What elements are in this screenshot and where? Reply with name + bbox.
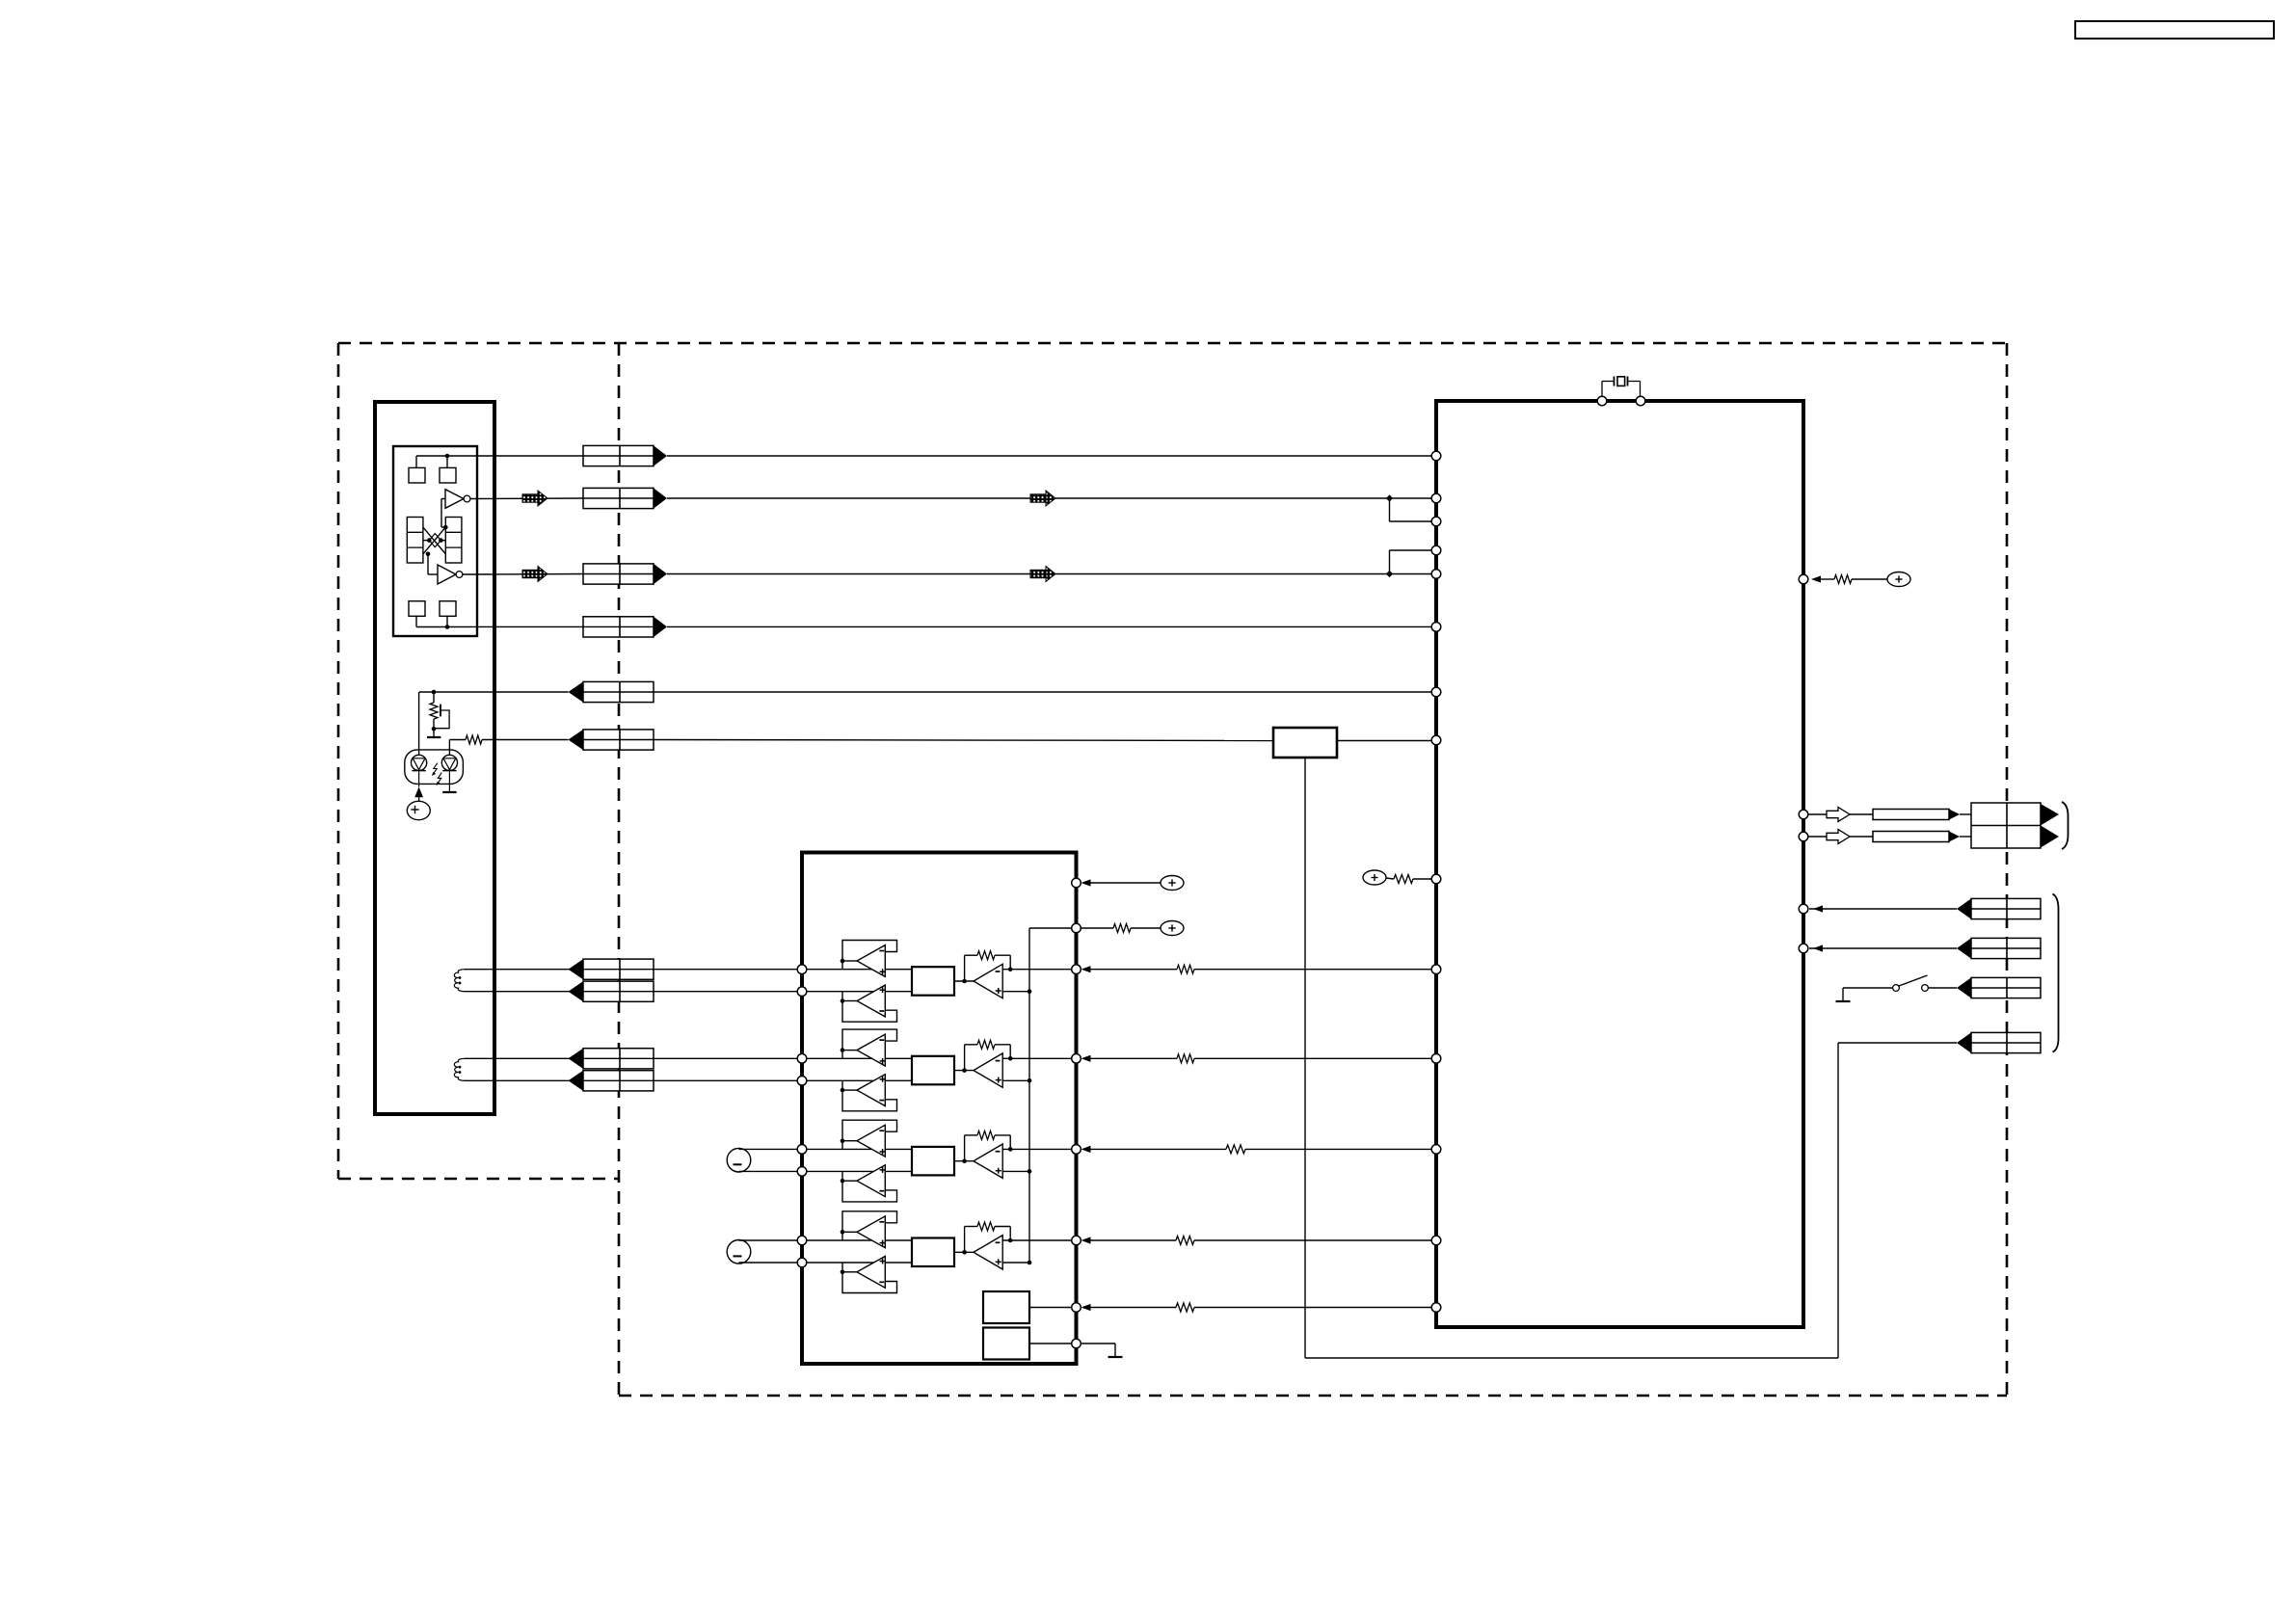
wire: LED D1 cathode to supply: [418, 797, 420, 801]
wire: DTMF tie jog: [1390, 498, 1432, 521]
op-amp U2d2 (lower driver): [857, 1256, 886, 1288]
wire: DET1 to pin: [1029, 1307, 1072, 1309]
photocoupler PC1 body: [405, 750, 464, 785]
connector CN2: [583, 488, 667, 508]
wire: ch2 lower input: [802, 1079, 912, 1081]
wire: ch2 upper feedback loop: [842, 1029, 897, 1051]
wire: ch1 lower input: [802, 991, 912, 993]
wire: ch4 lower feedback loop: [842, 1272, 897, 1293]
wire: A1 sense to CN15: [1305, 1043, 1957, 1358]
resistor R-RXA1: [1226, 1145, 1245, 1154]
wire: F2 output: [954, 1068, 974, 1073]
cable W1: [1873, 810, 1960, 820]
wire: loop sense line: [419, 691, 569, 693]
wire: ch3 lower feedback loop: [842, 1181, 897, 1202]
photocoupler PC1 coupling arrows: [432, 763, 441, 785]
wire: ch3 upper output stub: [841, 1138, 857, 1149]
arrow into U3 pin right 5: [1813, 945, 1823, 951]
op-amp U2c1 (upper driver): [857, 1125, 886, 1157]
inverter G2: [438, 565, 463, 584]
connector CN14: [1957, 977, 2041, 998]
wire: ch2 upper input: [802, 1057, 912, 1059]
board outline: right edge (dashed): [2006, 343, 2009, 1396]
wire: ch1 upper input: [802, 969, 912, 971]
pin U3 right 1: [1799, 574, 1808, 584]
terminal T- ch4: [727, 1240, 751, 1264]
pin X1-B on U3: [1636, 396, 1645, 406]
wire: ch2 upper output stub: [841, 1048, 857, 1058]
wire: ch4 lower input: [802, 1262, 912, 1264]
board outline: bottom edge of left board (dashed): [338, 1178, 619, 1181]
pin U2 right ref: [1072, 923, 1081, 933]
resistor R2: [466, 735, 482, 744]
wire: net RX from U3 (left segment): [654, 740, 1273, 741]
pin U3 left 11: [1431, 1054, 1441, 1064]
arrow into LED D1: [414, 786, 423, 797]
board outline: divider between boards (dashed): [618, 343, 621, 1396]
terminal T- ch3: [727, 1148, 751, 1172]
resistor R-RXA2: [1176, 1237, 1194, 1245]
wire: cross link 2: [423, 527, 445, 554]
arrow into U2 pin TXA1: [1081, 966, 1091, 972]
pin U3 left 13: [1431, 1236, 1441, 1245]
pin U3 left 6: [1431, 623, 1441, 632]
connector CN7: [569, 959, 654, 979]
pin U2 right det2: [1072, 1339, 1081, 1348]
wire: SW1 to CN14: [1929, 987, 1958, 989]
wire: net TXA2 (U3 to U2) left: [1090, 1057, 1177, 1059]
wire: net TXA1 (U3 to U2) right: [1194, 969, 1432, 971]
ground G-D2: [442, 791, 456, 793]
wire: net IN-A: [1809, 908, 1957, 910]
op-amp U2c2 (lower driver): [857, 1165, 886, 1197]
board outline: top edge (dashed): [338, 342, 2007, 345]
board outline: bottom edge of main board (dashed): [619, 1395, 2007, 1397]
inductor L2: [454, 1058, 466, 1080]
resistor R1: [430, 703, 438, 719]
wire: RING line inside U1: [416, 625, 583, 627]
block DET2: [983, 1328, 1029, 1360]
wire: ch4 pair to terminal: [739, 1240, 798, 1263]
pin U3 left 9: [1431, 874, 1441, 884]
resistor R-TXA1: [1177, 965, 1194, 973]
wire: stub from contact B1: [415, 616, 417, 626]
wire: ch1 pair from L1: [465, 970, 798, 992]
wire: net RXA1 (U3 to U2) left: [1090, 1148, 1226, 1150]
pin X1-A on U3: [1597, 396, 1607, 406]
ground G-R1: [427, 736, 441, 738]
power terminal +B5: [1161, 921, 1184, 936]
contact A1: [409, 467, 425, 483]
op-amp U2b1 (upper driver): [857, 1034, 886, 1066]
board outline: left edge (dashed): [337, 343, 340, 1179]
wire: ch4 upper input: [802, 1239, 912, 1241]
wire: switch feed: [1843, 987, 1893, 989]
photocoupler PC1 LED D1: [412, 755, 427, 786]
pin U2 left ch4 out: [797, 1236, 807, 1245]
wire: bias feed: [1090, 882, 1161, 884]
wire: ch3 lower output stub: [841, 1171, 857, 1183]
resistor Rf1: [977, 951, 995, 960]
op-amp U2a3 (receive amp): [974, 964, 1002, 998]
block DET1: [983, 1291, 1029, 1323]
op-amp U2b2 (lower driver): [857, 1075, 886, 1106]
cable W2: [1873, 832, 1960, 842]
wire: R1 to ground: [432, 719, 437, 736]
pin U2 left ch2 in: [797, 1077, 807, 1086]
resistor Rf3: [977, 1131, 995, 1139]
wire: W2 to CN11: [1960, 836, 1971, 838]
wire: W1 to CN11: [1960, 813, 1971, 815]
wire: ch3 pair to terminal: [739, 1149, 798, 1171]
pin U3 right 4: [1799, 904, 1808, 914]
wire: net RXA2 (U3 to U2) right: [1194, 1239, 1432, 1241]
wire: ch4 +ref: [1002, 1261, 1031, 1265]
wire: net RXA2 (U3 to U2) left: [1090, 1239, 1176, 1241]
wire: net LOOP from U3: [654, 691, 1432, 693]
wire: drop to R1: [433, 692, 435, 703]
connector CN5: [569, 681, 654, 702]
pin U2 right ch3: [1072, 1145, 1081, 1155]
junction tie on net CTRL: [1386, 571, 1393, 577]
arrow into U2 pin RXA1: [1081, 1146, 1091, 1153]
wire: receive line to R2: [449, 740, 466, 756]
pin U2 left ch4 in: [797, 1258, 807, 1267]
wire: ch1 upper feedback loop: [842, 941, 897, 962]
hatched arrow on net CTRL (left): [522, 567, 547, 582]
contact A2: [440, 467, 456, 483]
power terminal +B1: [407, 801, 430, 819]
connector CN10: [569, 1071, 654, 1091]
wire: stub left mid: [423, 538, 432, 543]
filter block F3: [912, 1147, 954, 1176]
wire: CTRL tie jog: [1390, 550, 1432, 574]
block U1 (line interface module): [375, 402, 494, 1114]
wire: net TXA1 (U3 to U2) left: [1090, 969, 1177, 971]
op-amp U2b3 (receive amp): [974, 1053, 1002, 1087]
wire: stub to contact A2: [446, 456, 448, 467]
hatched arrow on net DTMF (left): [522, 491, 547, 506]
wire: stub to contact A1: [415, 456, 417, 467]
wire: F1 output: [954, 979, 974, 984]
op-amp U2a1 (upper driver): [857, 945, 886, 977]
junction tie on net DTMF: [1386, 494, 1393, 501]
wire: ch3 lower input: [802, 1170, 912, 1172]
wire: ch1 +ref: [1002, 989, 1031, 994]
resistor R-DET: [1176, 1303, 1194, 1312]
pin U3 left 12: [1431, 1145, 1441, 1155]
connector CN12: [1957, 898, 2041, 918]
pin U3 right 2: [1799, 810, 1808, 819]
pin U2 left ch1 out: [797, 965, 807, 974]
pin U3 left 2: [1431, 493, 1441, 503]
pin U3 left 10: [1431, 965, 1441, 974]
arrow into U2 pin DET: [1081, 1304, 1091, 1311]
inverter G1: [445, 490, 470, 509]
IC U3 (modem / control LSI): [1436, 401, 1803, 1327]
resistor R5: [1113, 924, 1131, 933]
wire: net OUT-B: [1808, 836, 1874, 838]
attenuator block A1: [1273, 728, 1337, 758]
wire: ch1 upper output stub: [841, 959, 857, 970]
wire: G2 output: [463, 573, 583, 576]
pin U3 left 14: [1431, 1303, 1441, 1313]
filter block F1: [912, 967, 954, 995]
pin U3 left 1: [1431, 451, 1441, 461]
block U1 inner unit (hook switch network): [393, 446, 477, 636]
relay stack right: [445, 518, 462, 564]
resistor R-TXA2: [1177, 1054, 1194, 1063]
wire: ref feed: [1081, 927, 1161, 929]
wire: net DET (U3 to U2) left: [1090, 1307, 1176, 1309]
bridge diamond: [429, 534, 441, 547]
IC U2 (line driver / receiver array): [802, 853, 1077, 1365]
connector CN3: [583, 564, 667, 584]
wire: ch4 feedback rail: [965, 1227, 1013, 1253]
connector CN4: [583, 617, 667, 637]
pin U2 right det1: [1072, 1303, 1081, 1313]
varistor RV1: [436, 705, 449, 729]
resistor R3: [1394, 875, 1413, 884]
wire: net RXA1 (U3 to U2) right: [1245, 1148, 1432, 1150]
wire: net OUT-A: [1808, 813, 1874, 815]
wire: ch1 lower feedback loop: [842, 1001, 897, 1023]
wire: ch3 upper input: [802, 1148, 912, 1150]
wire: DET2 to pin: [1029, 1343, 1072, 1344]
connector CN6: [569, 730, 654, 750]
arrow into U2 bias pin: [1081, 879, 1091, 886]
wire: +B3 feed: [1821, 578, 1887, 580]
power terminal +B4: [1161, 876, 1184, 891]
op-amp U2a2 (lower driver): [857, 985, 886, 1017]
wire: ch4 output to pin: [1002, 1239, 1071, 1241]
connector CN11: [1971, 803, 2059, 848]
wire: G2 input: [426, 552, 438, 575]
wire: net IN-B: [1809, 947, 1957, 949]
wire: stub right mid: [439, 538, 445, 543]
wire: ch1 feedback rail: [965, 955, 1013, 981]
wire: stub from contact B2: [445, 616, 450, 629]
crystal X1: [1602, 377, 1641, 398]
hatched arrow on net DTMF (right): [1030, 491, 1055, 506]
wire: drop to photocoupler LED: [418, 692, 420, 755]
contact B2: [440, 601, 456, 617]
connector CN9: [569, 1049, 654, 1069]
wire: ch4 upper output stub: [841, 1230, 857, 1240]
wire: ch1 output to pin: [1002, 969, 1071, 971]
wire: net TIP to U3: [667, 455, 1432, 457]
contact B1: [409, 601, 425, 617]
pin U2 left ch3 out: [797, 1145, 807, 1155]
pin U3 left 5: [1431, 570, 1441, 579]
pin U3 left 3: [1431, 517, 1441, 526]
wire: G1 input: [441, 499, 448, 530]
arrow into U3 pin right 4: [1813, 905, 1823, 912]
bracket for CN12-CN15: [2053, 894, 2059, 1052]
resistor R4: [1834, 575, 1852, 584]
wire: cross link 1: [423, 527, 445, 554]
wire: ch2 feedback rail: [965, 1045, 1013, 1071]
wire: ch4 upper feedback loop: [842, 1211, 897, 1233]
wire: ch4 lower output stub: [841, 1263, 857, 1274]
connector CN15: [1957, 1032, 2041, 1052]
wire: det2 ground link: [1081, 1344, 1115, 1356]
wire: net TXA2 (U3 to U2) right: [1194, 1057, 1432, 1059]
open arrow OUT-A: [1827, 808, 1850, 822]
connector CN8: [569, 981, 654, 1001]
bracket for CN11: [2062, 802, 2069, 849]
pin U2 left ch2 out: [797, 1054, 807, 1064]
wire: ch3 feedback rail: [965, 1135, 1013, 1161]
junction on TIP wire: [445, 454, 450, 459]
op-amp U2c3 (receive amp): [974, 1144, 1002, 1178]
pin U2 right bias: [1072, 878, 1081, 888]
open arrow OUT-B: [1827, 830, 1850, 844]
wire: net RING to U3: [667, 625, 1432, 627]
pin U2 right ch2: [1072, 1054, 1081, 1064]
wire: R2 to connector CN6: [482, 739, 569, 741]
pin U3 left 7: [1431, 687, 1441, 697]
wire: +B2 feed: [1386, 878, 1432, 879]
resistor Rf4: [977, 1222, 995, 1231]
inductor L1: [454, 970, 466, 992]
wire: A1 sense drop: [1304, 758, 1306, 1358]
filter block F2: [912, 1056, 954, 1085]
wire: ch2 output to pin: [1002, 1057, 1071, 1059]
hatched arrow on net CTRL (right): [1030, 567, 1055, 582]
pin U3 left 8: [1431, 735, 1441, 745]
wire: ch2 +ref: [1002, 1078, 1031, 1083]
arrow into U2 pin TXA2: [1081, 1055, 1091, 1062]
title box: [2075, 21, 2274, 39]
connector CN13: [1957, 938, 2041, 958]
wire: ch1 lower output stub: [841, 992, 857, 1003]
wire: net DET (U3 to U2) right: [1194, 1307, 1432, 1309]
filter block F4: [912, 1238, 954, 1267]
pin U2 left ch1 in: [797, 987, 807, 997]
wire: ch2 lower output stub: [841, 1080, 857, 1092]
arrow into U2 pin RXA2: [1081, 1237, 1091, 1243]
op-amp U2d3 (receive amp): [974, 1236, 1002, 1269]
arrow into U3 pin right 1: [1811, 575, 1821, 582]
wire: net RX from U3 (right segment): [1337, 740, 1432, 742]
pin U2 right ch4: [1072, 1236, 1081, 1245]
wire: net DTMF to U3: [667, 497, 1432, 499]
wire: G1 output: [470, 497, 583, 500]
ground G-SW: [1836, 988, 1851, 1001]
wire: ch2 pair from L2: [465, 1058, 798, 1080]
connector CN1: [583, 445, 667, 466]
pin U3 right 5: [1799, 944, 1808, 953]
pin U3 right 3: [1799, 832, 1808, 841]
ground G-DET2: [1108, 1356, 1123, 1357]
power terminal +B3: [1887, 572, 1910, 587]
wire: ch3 output to pin: [1002, 1148, 1071, 1150]
resistor Rf2: [977, 1040, 995, 1049]
switch SW1: [1893, 975, 1929, 991]
wire: net CTRL to U3: [667, 573, 1432, 575]
wire: ch3 upper feedback loop: [842, 1120, 897, 1141]
junction on loop sense line: [432, 690, 437, 695]
wire: ch3 +ref: [1002, 1169, 1031, 1174]
wire: reference rail: [1029, 928, 1072, 1263]
op-amp U2d1 (upper driver): [857, 1216, 886, 1248]
power terminal +B2: [1363, 870, 1386, 885]
wire: F3 output: [954, 1158, 974, 1163]
photocoupler PC1 LED D2: [441, 755, 457, 792]
wire: TIP line inside U1: [416, 455, 583, 457]
wire: ch2 lower feedback loop: [842, 1090, 897, 1111]
pin U2 left ch3 in: [797, 1167, 807, 1177]
wire: F4 output: [954, 1250, 974, 1255]
relay stack left: [407, 518, 423, 564]
pin U2 right ch1: [1072, 965, 1081, 974]
pin U3 left 4: [1431, 545, 1441, 555]
